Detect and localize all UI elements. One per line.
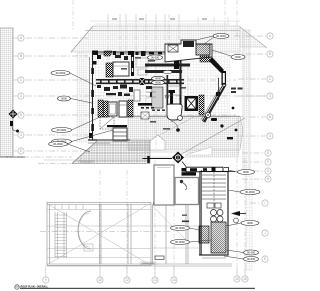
lower hatch trapezoid between plans xyxy=(72,140,150,164)
hatched block left xyxy=(199,226,209,243)
interior light lines xyxy=(47,204,199,266)
wall segment x167 xyxy=(167,75,169,108)
svg-text:I: I xyxy=(265,201,266,205)
svg-text:13: 13 xyxy=(153,278,157,282)
svg-text:00-0000: 00-0000 xyxy=(57,128,67,132)
corridor side marks xyxy=(146,86,154,97)
left wall chunks xyxy=(91,55,101,131)
curved wall arc xyxy=(78,211,91,249)
svg-text:00-0000: 00-0000 xyxy=(245,190,255,194)
dark strip tall rect xyxy=(200,172,228,256)
svg-text:3: 3 xyxy=(269,94,271,98)
vertical wall x131 xyxy=(131,51,134,76)
toilet room lines xyxy=(134,90,140,101)
svg-text:00-0000: 00-0000 xyxy=(216,34,226,38)
horizontal grid dash lines right xyxy=(234,36,266,203)
bath wall checker 2 xyxy=(104,101,109,117)
vertical grid dash lines bottom plan xyxy=(100,158,245,274)
room A inner line xyxy=(157,167,171,169)
landing small boxes xyxy=(207,203,214,208)
F.D. text mark xyxy=(182,221,189,223)
top wall black chunk 2 xyxy=(141,51,146,56)
candlestick column xyxy=(169,90,176,93)
dashes row xyxy=(141,107,154,109)
svg-text:3: 3 xyxy=(20,94,22,98)
washer dryer circles xyxy=(211,210,224,223)
left hatch strip beside plan xyxy=(76,52,88,143)
keynote dots right xyxy=(232,107,235,110)
right patio vertical line xyxy=(237,118,239,158)
bath wall checker 1 xyxy=(98,100,103,117)
pentagon roof peak white xyxy=(150,135,165,150)
svg-text:00-0000: 00-0000 xyxy=(56,71,66,75)
svg-text:F: F xyxy=(267,160,269,164)
svg-text:9: 9 xyxy=(45,278,47,282)
room B lower plan xyxy=(175,178,199,205)
outline main rect xyxy=(47,203,232,267)
diamond keynote left xyxy=(9,110,18,119)
mid wall studs xyxy=(100,79,178,84)
door circle X on bay xyxy=(205,112,210,117)
svg-text:3: 3 xyxy=(269,134,271,138)
dense fixtures row under top-left wall xyxy=(97,85,133,93)
dashed rect lower-left xyxy=(100,117,114,129)
hall lines under corridor xyxy=(146,86,180,97)
svg-text:0000: 0000 xyxy=(235,55,241,59)
svg-text:15: 15 xyxy=(235,277,239,281)
stair treads xyxy=(202,175,226,199)
strip inner left double wall xyxy=(201,170,203,255)
svg-text:G: G xyxy=(267,169,270,173)
leader ovals left of plan xyxy=(51,71,72,145)
leader ovals bottom plan right xyxy=(238,170,261,262)
top-right cluster outline xyxy=(165,40,212,62)
cluster vent boxes xyxy=(168,45,178,52)
light lines under patio xyxy=(44,152,190,160)
small black marks near bay xyxy=(211,92,224,128)
bay diagonal lower xyxy=(203,84,226,122)
patio lower right extension xyxy=(190,150,240,158)
svg-text:16: 16 xyxy=(243,277,247,281)
horizontal grid dash mid xyxy=(0,157,170,232)
tiny keynote marks xyxy=(121,57,186,130)
bubble letters xyxy=(20,34,272,282)
right roof strip xyxy=(243,30,250,170)
checker stair block upper-left xyxy=(106,63,113,77)
bath wall checker 3 xyxy=(128,100,133,117)
tiny label below plan xyxy=(140,262,156,265)
svg-text:00-0000: 00-0000 xyxy=(53,142,63,146)
wall band y64 xyxy=(145,64,190,67)
bubble stubs bottom xyxy=(46,266,245,277)
small dark dot xyxy=(176,128,180,132)
tub circle xyxy=(178,116,183,121)
bay parallel inner diagonal xyxy=(201,87,220,120)
bay right wall xyxy=(222,71,227,85)
fireplace black box with X xyxy=(185,96,199,111)
room interior bits xyxy=(115,55,128,60)
svg-text:0000: 0000 xyxy=(247,221,253,225)
svg-text:14: 14 xyxy=(172,278,176,282)
title underline xyxy=(20,288,255,289)
grid bubbles left xyxy=(18,35,24,154)
horizontal grid dash lines left xyxy=(26,38,266,151)
hall wall x180 xyxy=(180,58,182,112)
spa tub fixture xyxy=(167,104,182,120)
small boxes near arc xyxy=(84,244,93,251)
svg-text:0000: 0000 xyxy=(61,97,67,101)
svg-text:3: 3 xyxy=(20,133,22,137)
plan floor texture xyxy=(88,52,230,118)
left roof strip xyxy=(0,28,13,157)
small room lines right of 134 xyxy=(136,58,148,75)
svg-text:0000: 0000 xyxy=(155,81,161,85)
svg-text:0000: 0000 xyxy=(243,170,249,174)
svg-text:00-000: 00-000 xyxy=(247,257,256,261)
top wall tick row xyxy=(113,51,162,55)
bathtub fixture xyxy=(108,102,117,116)
patio hatch region inside lower top-plan xyxy=(128,116,243,150)
roof ridge line top xyxy=(85,30,240,32)
hatched block right big xyxy=(211,222,226,253)
door tick marks top wall xyxy=(55,205,83,210)
stair arrow dashed xyxy=(213,172,215,205)
right of bath black X-blocks xyxy=(139,78,145,85)
leader ovals bottom plan left xyxy=(49,142,190,245)
right roof strip lower xyxy=(246,170,252,270)
trapezoid diagonal edge xyxy=(72,140,98,164)
diagonal roof edge right xyxy=(240,27,267,48)
small circle xyxy=(165,95,168,98)
bubble stubs left xyxy=(13,38,18,151)
pedestal xyxy=(167,105,176,109)
top wall left segment xyxy=(93,51,165,53)
cluster leaders xyxy=(196,36,231,56)
upper-left room inner line xyxy=(113,65,129,67)
small bath details mid xyxy=(106,92,130,96)
top right leader ovals xyxy=(148,34,246,85)
sink marks on bar xyxy=(190,168,216,172)
counter bar xyxy=(138,103,152,106)
small circle symbol xyxy=(234,218,239,223)
upper-left room xyxy=(113,62,129,76)
faint dimension tick band top xyxy=(90,17,240,25)
roof hatch diagonal edge top-left xyxy=(71,26,93,52)
left roof strip bottom bar xyxy=(0,156,25,158)
svg-text:0000: 0000 xyxy=(155,77,161,81)
stair ladder bottom-left xyxy=(55,212,67,258)
angled bay upper thick xyxy=(209,57,224,73)
top wall door hatch xyxy=(104,51,112,56)
dash row bottom xyxy=(152,110,170,111)
patio diagonal valley line xyxy=(180,118,245,155)
closet stack xyxy=(113,128,127,141)
black label boxes xyxy=(182,168,201,172)
svg-text:12: 12 xyxy=(125,278,129,282)
room A lower plan xyxy=(154,165,174,205)
shower symbol in room B xyxy=(180,180,183,183)
svg-text:00-0000: 00-0000 xyxy=(175,240,185,244)
roof hatch top-right triangle xyxy=(240,27,266,47)
top wall black chunk 1 xyxy=(92,51,98,56)
tiny label row right xyxy=(231,88,243,94)
tiny label above plan xyxy=(79,161,94,164)
patio white wedge xyxy=(185,147,212,155)
chimney hatched block xyxy=(196,44,210,55)
vertical line x218 xyxy=(218,78,220,100)
dark top bar of strip xyxy=(186,167,223,172)
black bar above closet xyxy=(107,125,127,127)
left wall block xyxy=(93,61,97,65)
left wall xyxy=(92,52,94,140)
vertical grid dash lines top xyxy=(73,0,237,150)
grid bubbles right xyxy=(262,33,273,262)
fireplace checker strip xyxy=(199,95,204,115)
bottom wall xyxy=(88,139,130,141)
mid horizontal wall double xyxy=(96,79,184,81)
dark L bracket marks xyxy=(153,203,160,205)
svg-text:00-000: 00-000 xyxy=(247,251,256,255)
roof hatch band top xyxy=(71,26,240,52)
svg-text:10: 10 xyxy=(98,278,102,282)
grid bubbles bottom xyxy=(43,276,248,283)
striped comb cabinets xyxy=(152,87,163,108)
arrow symbol black xyxy=(231,211,240,216)
small oval label xyxy=(163,70,172,73)
vanity fixture xyxy=(119,101,127,117)
dot leader xyxy=(171,121,178,128)
small box with x xyxy=(141,112,149,119)
wall band y70 xyxy=(145,70,182,73)
svg-text:00-000: 00-000 xyxy=(151,56,160,60)
hatch block small xyxy=(200,56,210,62)
north arrow diamond xyxy=(172,152,184,164)
svg-text:00-0000: 00-0000 xyxy=(175,226,185,230)
black post xyxy=(174,60,179,69)
strip bottom lines xyxy=(199,254,228,256)
title circle xyxy=(15,285,19,289)
dimension line left of diamond xyxy=(143,158,173,160)
svg-text:J: J xyxy=(264,231,266,235)
